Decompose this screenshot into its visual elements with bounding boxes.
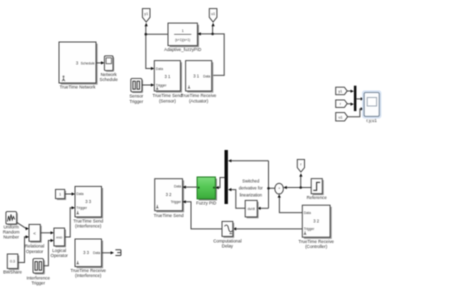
svg-text:Trigger: Trigger xyxy=(31,281,45,286)
wire fuzzy output to send data xyxy=(186,186,197,188)
svg-text:Schedule: Schedule xyxy=(100,77,119,82)
block Relational Operator xyxy=(29,224,42,242)
constant 1 xyxy=(56,189,67,200)
svg-text:Trigger: Trigger xyxy=(129,99,143,104)
svg-text:u1: u1 xyxy=(339,115,343,119)
svg-text:Delay: Delay xyxy=(222,244,234,249)
wire error vertical and sum output xyxy=(269,161,275,209)
svg-text:(Controller): (Controller) xyxy=(305,244,327,249)
svg-text:<: < xyxy=(33,231,36,236)
svg-text:(Interference): (Interference) xyxy=(75,224,102,229)
block Computational Delay xyxy=(222,221,234,237)
block Logical Operator AND xyxy=(54,228,66,247)
svg-text:1: 1 xyxy=(182,29,184,33)
svg-text:Operator: Operator xyxy=(51,253,69,258)
wire receive data to sum bottom xyxy=(279,197,302,212)
wire and to send trigger xyxy=(65,208,72,237)
block TrueTime Network xyxy=(59,42,98,85)
svg-text:du/dt: du/dt xyxy=(248,207,255,211)
scope Network Schedule xyxy=(104,56,114,72)
svg-text:Trigger: Trigger xyxy=(76,206,87,210)
wire interference trigger to and xyxy=(44,241,51,266)
sum junction xyxy=(275,183,284,195)
wire receive output to plant input and u1 tag xyxy=(201,26,225,76)
block TrueTime Receive (Interference) xyxy=(75,239,103,268)
block TrueTime Receive (Actuator) xyxy=(186,61,214,93)
svg-text:Sensor: Sensor xyxy=(129,93,143,98)
svg-text:(s+1)(s+1): (s+1)(s+1) xyxy=(175,38,190,42)
svg-text:TrueTime Send: TrueTime Send xyxy=(154,213,184,218)
svg-text:derivative for: derivative for xyxy=(239,186,264,191)
wire u1 to scope xyxy=(348,109,362,117)
svg-text:Data: Data xyxy=(174,185,181,189)
from tag u1 xyxy=(336,113,348,121)
svg-text:Fuzzy PID: Fuzzy PID xyxy=(196,200,216,205)
svg-text:r,y,u1: r,y,u1 xyxy=(366,118,377,123)
from tag r xyxy=(336,100,348,108)
wire mux output to fuzzy input xyxy=(219,178,225,188)
svg-text:3 2: 3 2 xyxy=(166,192,172,197)
svg-text:Data: Data xyxy=(93,251,100,255)
terminator xyxy=(115,250,121,256)
plant block Adaptive_fuzzyPID xyxy=(168,23,199,47)
mux bar (controller) xyxy=(225,150,228,204)
constant BWShare 0.3 xyxy=(7,254,19,270)
wire relational to and xyxy=(40,232,51,234)
svg-text:3 1: 3 1 xyxy=(193,74,199,79)
svg-text:Data: Data xyxy=(304,211,311,215)
svg-text:Reference: Reference xyxy=(307,195,328,200)
block TrueTime Send (controller side, flipped) xyxy=(155,179,184,213)
wire receive to terminator xyxy=(102,252,111,254)
wire network to schedule scope xyxy=(96,62,102,64)
svg-text:Schedule: Schedule xyxy=(81,61,95,65)
svg-text:(Actuator): (Actuator) xyxy=(189,98,209,103)
svg-text:linearization: linearization xyxy=(240,193,263,198)
block TrueTime Send (Sensor) xyxy=(154,61,182,93)
svg-text:Data: Data xyxy=(203,74,210,78)
svg-text:y1: y1 xyxy=(144,12,148,16)
svg-text:Trigger: Trigger xyxy=(171,200,182,204)
block TrueTime Send (Interference) xyxy=(75,186,103,218)
svg-text:3 3: 3 3 xyxy=(85,199,91,204)
TrueTime Network icon xyxy=(62,76,65,82)
wire r to mux xyxy=(347,103,351,105)
mux bar (scope) xyxy=(354,86,357,111)
block Fuzzy PID (green) xyxy=(197,177,217,201)
svg-text:Adaptive_fuzzyPID: Adaptive_fuzzyPID xyxy=(164,47,201,52)
wire bwshare to relational xyxy=(18,237,27,263)
wire uniform random to relational xyxy=(17,222,27,228)
svg-text:0.3: 0.3 xyxy=(10,260,15,264)
block TrueTime Receive (Controller, flipped) xyxy=(302,205,331,239)
svg-text:BWShare: BWShare xyxy=(3,270,22,275)
wire sensor trigger to send xyxy=(142,84,152,86)
svg-text:Trigger: Trigger xyxy=(304,227,315,231)
wire mux to scope xyxy=(356,98,361,100)
svg-text:(Sensor): (Sensor) xyxy=(159,98,176,103)
pulse generator Sensor Trigger xyxy=(131,78,143,93)
svg-text:Operator: Operator xyxy=(26,249,44,254)
wire error to du/dt input xyxy=(260,207,268,209)
svg-text:AND: AND xyxy=(56,235,63,239)
wire receive trigger to computational delay xyxy=(236,228,302,230)
goto tag y1 xyxy=(142,9,150,22)
wire constant 1 to send data xyxy=(65,193,72,195)
svg-text:TrueTime Network: TrueTime Network xyxy=(60,85,97,90)
block Uniform Random Number xyxy=(6,212,18,226)
svg-text:3 3: 3 3 xyxy=(83,250,89,255)
derivative block du/dt xyxy=(245,200,258,218)
svg-text:Switched: Switched xyxy=(242,179,260,184)
svg-text:Number: Number xyxy=(3,235,19,240)
svg-text:y1: y1 xyxy=(338,89,342,93)
goto tag u1 xyxy=(209,9,217,22)
svg-text:3 2: 3 2 xyxy=(313,219,319,224)
wire reference to sum and r tag xyxy=(287,176,312,187)
svg-text:(Interference): (Interference) xyxy=(75,273,102,278)
wire y1 to mux xyxy=(347,90,351,92)
svg-text:1: 1 xyxy=(59,193,61,197)
block Reference (step, flipped) xyxy=(311,179,324,196)
svg-text:u1: u1 xyxy=(211,12,215,16)
svg-text:Data: Data xyxy=(76,192,83,196)
svg-text:Trigger: Trigger xyxy=(156,83,167,87)
wire delay output to send trigger xyxy=(186,202,222,229)
svg-text:3 1: 3 1 xyxy=(164,74,170,79)
svg-text:Data: Data xyxy=(156,67,163,71)
wire du/dt output to mux input 2 xyxy=(231,190,245,209)
wire plant output to send data and y1 tag xyxy=(146,26,168,69)
goto tag r xyxy=(297,159,304,172)
scope r,y,u1 (selected) xyxy=(363,91,381,118)
from tag y1 xyxy=(336,87,348,95)
pulse generator Interference Trigger xyxy=(33,259,45,275)
wire error to mux input 1 xyxy=(231,160,269,162)
